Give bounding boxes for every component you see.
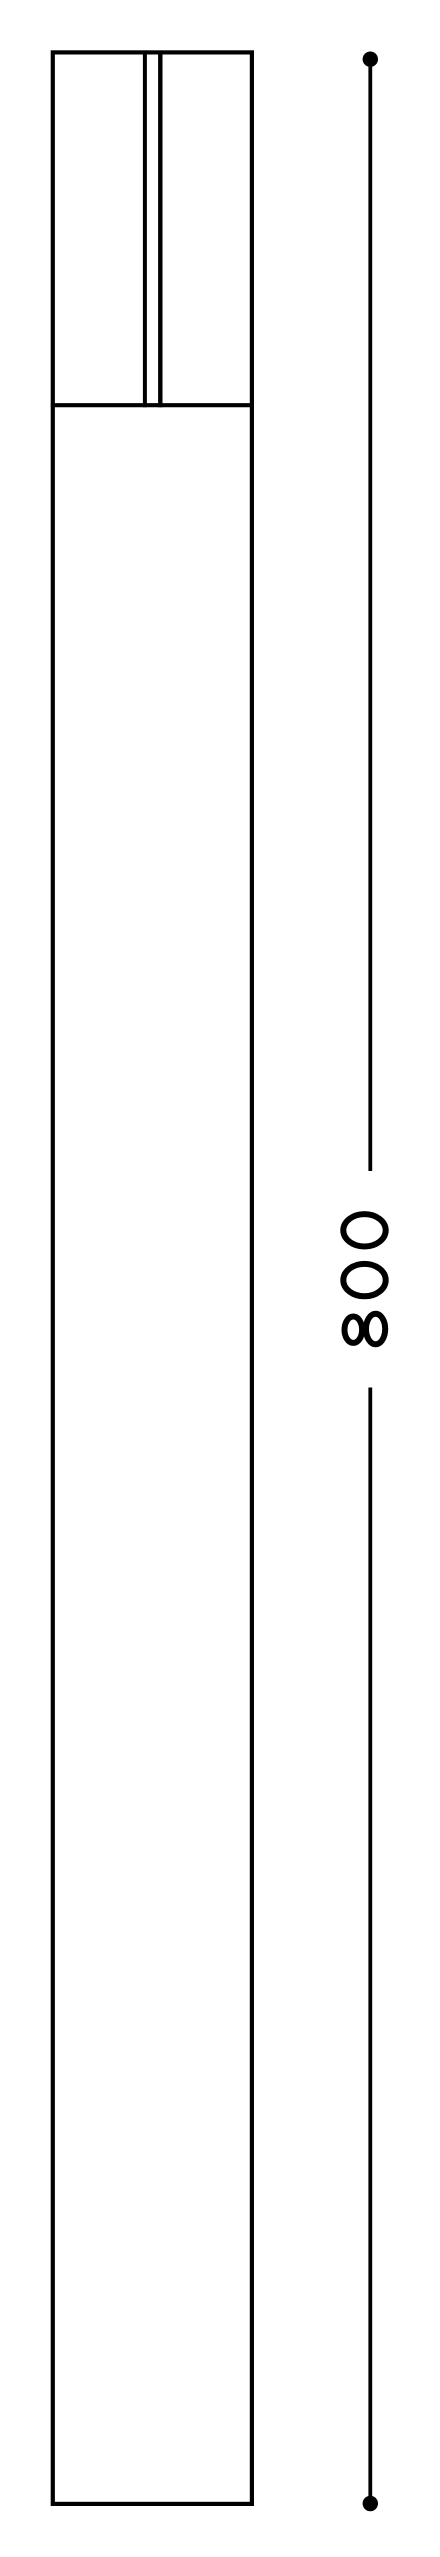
door gap line right [158, 52, 162, 407]
dimension label 800 digit 0 (second zero) [343, 1264, 385, 1296]
top rail divider line [51, 403, 254, 407]
dimension line upper segment [368, 59, 372, 1171]
door gap line left [143, 52, 147, 407]
dimension line lower segment [368, 1388, 372, 2504]
dimension label 800 digit 8 lower loop (right oval after rotation) [366, 1314, 385, 1345]
cabinet outline rectangle [53, 52, 252, 2504]
dimension endpoint dot top [363, 52, 378, 67]
dimension label 800 digit 0 (first zero, drawn as ellipse, rotated text) [343, 1214, 385, 1246]
dimension label 800 digit 8 upper loop (left oval after rotation) [345, 1317, 363, 1343]
dimension endpoint dot bottom [363, 2496, 378, 2511]
